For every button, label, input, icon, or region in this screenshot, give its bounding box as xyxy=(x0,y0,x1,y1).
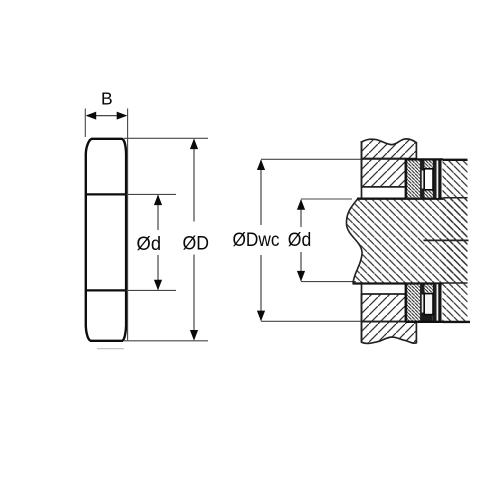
dimension B extension line left xyxy=(84,109,86,138)
Od dimension line upper (left view) xyxy=(157,195,159,230)
svg-text:ØDwc: ØDwc xyxy=(233,229,280,251)
upper bearing cage right bar xyxy=(433,161,437,199)
housing lower left break edge xyxy=(361,284,363,343)
lower bearing washer (dense hatch) xyxy=(407,284,421,322)
upper bearing white strip xyxy=(437,161,439,199)
washer side view outline xyxy=(86,139,126,341)
housing lower block above ledge (hatched) xyxy=(362,294,406,322)
upper housing face contact line xyxy=(405,159,407,199)
flange bottom edge xyxy=(443,321,470,323)
Od arrow up (section) xyxy=(297,199,305,210)
lower bearing right washer xyxy=(438,284,441,323)
upper bearing cage sliver xyxy=(422,171,424,189)
Od arrow up (left view) xyxy=(154,195,162,206)
lower bearing cage top texture xyxy=(425,284,433,293)
centerline xyxy=(424,239,469,241)
OD dimension line upper xyxy=(193,140,195,222)
upper bearing roller xyxy=(424,169,433,190)
svg-text:B: B xyxy=(101,89,113,109)
svg-text:Ød: Ød xyxy=(288,229,312,251)
washer bore bottom line xyxy=(86,289,127,291)
ODwc arrow down xyxy=(257,311,265,322)
Od arrow down (section) xyxy=(297,271,305,282)
Od connector line bottom (left view) xyxy=(126,289,176,291)
OD arrow down xyxy=(190,330,198,341)
shaft section (hatched) xyxy=(346,199,467,284)
housing lower block below ledge (hatched) xyxy=(362,322,417,344)
Od dimension line upper (section) xyxy=(300,200,302,227)
OD dimension line lower xyxy=(193,255,195,340)
Od dimension line lower (left view) xyxy=(157,255,159,290)
lower bearing white strip xyxy=(437,284,439,321)
dimension B arrow right xyxy=(117,112,128,120)
OD connector line top xyxy=(124,137,208,139)
housing upper block above ledge (hatched) xyxy=(362,139,417,159)
svg-text:Ød: Ød xyxy=(137,233,162,255)
faint scan artifact line under washer xyxy=(97,348,124,350)
ODwc dimension line lower xyxy=(260,255,262,320)
dimension B extension line right xyxy=(127,109,129,341)
housing upper left break edge xyxy=(361,141,363,199)
flange top edge xyxy=(443,159,468,161)
lower bearing cage left bar xyxy=(421,284,425,321)
dimension B arrow left xyxy=(86,112,97,120)
OD connector line bottom xyxy=(124,340,208,342)
shaft top edge xyxy=(357,198,444,200)
upper bearing cage bottom texture xyxy=(425,190,433,199)
shaft bottom edge xyxy=(353,282,444,284)
OD arrow up xyxy=(190,139,198,150)
lower bearing cage right bar xyxy=(433,284,437,321)
lower bearing roller xyxy=(424,294,433,315)
Od connector line top (left view) xyxy=(126,193,176,195)
housing upper block below ledge (hatched) xyxy=(362,159,406,187)
Od arrow down (left view) xyxy=(154,280,162,291)
shaft shoulder flange (hatched) xyxy=(443,160,468,322)
lower bearing bottom edge xyxy=(406,321,443,323)
dimension B line xyxy=(87,115,126,117)
lower housing face contact line xyxy=(405,284,407,322)
ODwc connector line bottom xyxy=(261,320,406,322)
svg-text:ØD: ØD xyxy=(183,233,210,255)
ODwc connector line top xyxy=(261,158,406,160)
upper bearing cage left bar xyxy=(421,161,425,199)
upper bearing right washer xyxy=(438,160,441,199)
ODwc arrow up xyxy=(257,159,265,170)
lower bearing cage bottom texture xyxy=(425,315,433,322)
upper bearing top edge xyxy=(406,158,443,160)
shaft break line xyxy=(346,199,362,284)
washer bore top line xyxy=(86,193,127,195)
shaft bottom edge under flange xyxy=(444,282,468,284)
lower bearing cage sliver xyxy=(422,295,424,313)
upper bearing cage top texture xyxy=(425,161,433,170)
Od connector line bottom (section) xyxy=(301,281,356,283)
Od connector line top (section) xyxy=(301,198,352,200)
shaft top edge under flange xyxy=(444,197,468,199)
Od dimension line lower (section) xyxy=(300,252,302,281)
upper bearing washer (dense hatch) xyxy=(407,160,421,199)
ODwc dimension line upper xyxy=(260,160,262,225)
